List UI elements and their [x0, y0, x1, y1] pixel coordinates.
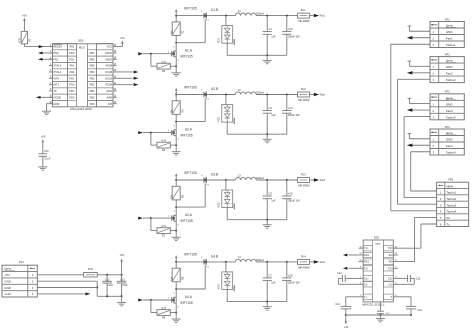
svg-text:4.7k: 4.7k: [161, 307, 166, 310]
svg-text:VD3: VD3: [218, 202, 221, 207]
svg-text:+C2: +C2: [288, 27, 293, 31]
DD2 left pin cells: [359, 246, 373, 300]
capacitor C1 1uF: [263, 16, 277, 56]
svg-text:330uH: 330uH: [256, 176, 264, 180]
transistor pin numbers channel 2: [168, 90, 210, 141]
resistor R3 4.7k gate pulldown channel 1: [151, 54, 177, 73]
fuse FU5: [84, 267, 98, 277]
wire fuse to output arrow channel 3: [310, 179, 314, 181]
svg-text:1uF: 1uF: [271, 113, 276, 117]
svg-text:DD2: DD2: [374, 235, 380, 239]
svg-text:330uH: 330uH: [256, 12, 264, 16]
capacitor C10 at DD2 C1: [337, 272, 358, 284]
wire Tx XP5 to DD2: [398, 224, 437, 248]
svg-text:330uH: 330uH: [256, 91, 264, 95]
capacitor C17 at DD2 GND: [377, 302, 390, 319]
svg-text:MF-R090: MF-R090: [298, 19, 310, 23]
svg-text:+5V: +5V: [344, 326, 349, 329]
wire MCU GND pin to ground: [47, 104, 49, 112]
connector XP3 body: [430, 90, 464, 120]
svg-text:C13: C13: [120, 278, 125, 281]
ground at U4.A source: [172, 319, 181, 322]
svg-text:INT1: INT1: [53, 83, 59, 87]
net arrow Fan3 output: [314, 178, 326, 182]
svg-text:Fan2: Fan2: [320, 95, 326, 97]
transistor pin numbers channel 4: [168, 257, 210, 308]
net arrow Fan3 at XP3 pin2: [407, 108, 430, 111]
wire XS1 GND pin3: [37, 287, 97, 289]
svg-text:FU2: FU2: [301, 87, 306, 91]
wire Rx XP5 to DD2: [398, 217, 437, 261]
wire XP2 pin1 with rail tap: [408, 61, 430, 66]
ground under C11: [38, 167, 47, 170]
svg-text:Цепь: Цепь: [446, 96, 454, 100]
svg-text:GND: GND: [4, 286, 11, 290]
svg-text:MCU: MCU: [79, 46, 85, 50]
wire VD3 to ground rail: [226, 208, 228, 220]
svg-text:+C8: +C8: [288, 273, 293, 277]
svg-text:Цепь: Цепь: [446, 59, 454, 63]
svg-text:DD1: DD1: [78, 39, 84, 43]
net arrow Fan1 output: [314, 14, 326, 18]
connector XP5 body: [437, 178, 469, 227]
power +5V at MCU VCC: [120, 36, 125, 43]
svg-text:AIN1: AIN1: [106, 89, 112, 93]
power +5V tap for R1: [22, 13, 27, 31]
net arrow PWM gate channel 1: [138, 52, 171, 55]
ground at U3.A source: [172, 237, 181, 240]
net arrow TxD at DD2 T2I: [343, 267, 359, 270]
svg-text:Fan1: Fan1: [320, 16, 326, 18]
wire MCU pin14 OC0A PWM out: [117, 83, 139, 86]
svg-text:Цепь: Цепь: [446, 131, 454, 135]
wire resistor to U2.A drain: [175, 114, 177, 129]
svg-text:VD2: VD2: [218, 116, 221, 121]
svg-text:Цепь: Цепь: [446, 24, 454, 28]
wire U2.B drain to output node: [208, 94, 235, 96]
svg-text:T1I: T1I: [364, 247, 368, 250]
net arrow RxD at DD2 R1O: [343, 254, 359, 257]
RS232 driver DD2 body: [362, 235, 393, 306]
ground symbol channel 2: [263, 134, 272, 143]
wire XP4 pin1 with rail tap: [408, 134, 430, 139]
wire MCU pin9 OC0B with net arrow: [36, 96, 53, 99]
svg-text:+5V: +5V: [120, 36, 125, 40]
wire VCC pin to +5V: [117, 44, 123, 47]
net arrow PWM gate channel 3: [138, 217, 171, 220]
n-mosfet U2.A IRF7105: [172, 128, 193, 138]
wire inductor to caps channel 4: [256, 261, 297, 263]
ground at U1.A source: [172, 73, 181, 76]
wire XP1 pin1 with rail tap: [408, 26, 430, 31]
svg-text:GND: GND: [4, 279, 11, 283]
svg-text:IRF7105: IRF7105: [184, 171, 197, 175]
capacitor C16 at DD2 V-: [398, 297, 423, 316]
svg-text:MISO: MISO: [105, 57, 112, 61]
wire Tacho2 XP2 pin3 to XP5: [398, 79, 437, 204]
MCU port column A cells: [67, 43, 76, 100]
svg-text:+5V: +5V: [41, 135, 46, 139]
svg-text:C12: C12: [105, 278, 110, 281]
net arrow Fan4 at XP4 pin2: [407, 144, 430, 147]
svg-text:100uF 16V: 100uF 16V: [288, 35, 300, 38]
wire VD1 to ground rail: [226, 43, 228, 55]
inductor L1 330uH: [235, 9, 263, 16]
inductor L2 330uH: [235, 88, 263, 95]
svg-text:MF-R090: MF-R090: [298, 98, 310, 102]
svg-text:VCC: VCC: [107, 45, 113, 49]
ground symbol channel 1: [263, 55, 272, 64]
svg-text:IRF7105: IRF7105: [180, 301, 192, 305]
svg-text:MAX: MAX: [376, 243, 381, 246]
svg-text:U3.B: U3.B: [211, 173, 218, 177]
svg-text:C3: C3: [269, 106, 273, 110]
svg-text:T2I: T2I: [364, 267, 368, 270]
n-mosfet U4.A IRF7105: [172, 295, 193, 305]
svg-text:FU4: FU4: [301, 255, 306, 259]
svg-text:PB1: PB1: [90, 89, 95, 93]
wire U4.A source to ground: [175, 303, 177, 319]
wire FU5 to +5V node: [97, 274, 122, 276]
svg-text:IRF7105: IRF7105: [180, 55, 192, 59]
wire U4.B drain to output node: [208, 261, 235, 263]
svg-text:GND: GND: [446, 138, 454, 142]
svg-text:U1.A: U1.A: [185, 49, 193, 53]
net arrow PWM gate channel 4: [138, 299, 171, 302]
svg-text:Tacho4: Tacho4: [446, 210, 456, 214]
svg-text:FU3: FU3: [301, 173, 306, 177]
svg-text:XP4: XP4: [445, 125, 450, 129]
wire U1.A source to ground: [175, 57, 177, 73]
svg-text:+C6: +C6: [288, 192, 293, 196]
wire fuse to output arrow channel 1: [310, 15, 314, 17]
svg-text:Tx: Tx: [446, 222, 450, 226]
ground rail channel 1: [227, 54, 287, 56]
DD2 right pin cells: [384, 246, 398, 300]
net arrow PWM gate channel 2: [138, 131, 171, 134]
inductor L3 330uH: [235, 173, 263, 180]
svg-text:U3.A: U3.A: [185, 213, 193, 217]
svg-text:PA0: PA0: [70, 70, 75, 74]
svg-text:Rx: Rx: [446, 216, 450, 220]
schottky diode pair VD2: [218, 95, 235, 125]
svg-text:MF-R090: MF-R090: [298, 265, 310, 269]
resistor R9 4.7k gate pulldown channel 4: [151, 300, 177, 320]
wire VD2 to ground rail: [226, 122, 228, 134]
svg-text:T+: T+: [364, 296, 368, 299]
svg-text:PB3: PB3: [90, 76, 95, 80]
ground rail under input caps: [97, 295, 122, 297]
capacitor C7 1uF: [263, 262, 277, 302]
ground rail channel 4: [227, 301, 287, 303]
p-mosfet U3.B IRF7105: [184, 171, 218, 185]
capacitor C15 at DD2 C2: [398, 275, 421, 285]
transistor pin numbers channel 3: [168, 175, 210, 226]
ground symbol power input: [117, 296, 126, 306]
svg-text:PA2: PA2: [70, 45, 75, 49]
MCU right pin cells: [97, 43, 113, 106]
resistor R8 10k gate pullup channel 4: [171, 262, 185, 282]
connector XP4 body: [430, 125, 464, 155]
wire U1.B gate down to U1.A drain: [175, 21, 205, 44]
svg-text:PD2: PD2: [69, 76, 75, 80]
svg-text:C14: C14: [336, 303, 341, 306]
wire inductor to caps channel 1: [256, 15, 297, 17]
svg-text:Fan4: Fan4: [446, 144, 453, 148]
net arrow Fan2 output: [314, 93, 326, 97]
svg-text:C2+: C2+: [388, 277, 393, 280]
wire XS1 +12V pin4 with net arrow: [37, 292, 90, 295]
svg-text:MF-R090: MF-R090: [298, 183, 310, 187]
fuse FU2 MF-R090: [298, 87, 310, 102]
resistor R4 10k gate pullup channel 2: [171, 95, 185, 115]
svg-text:Цепь: Цепь: [4, 267, 11, 271]
transistor pin numbers channel 1: [168, 11, 210, 62]
rail between C14 and C16: [346, 314, 411, 316]
svg-text:4.7k: 4.7k: [161, 140, 166, 143]
power +12V tap channel 4: [175, 255, 177, 263]
wire +12V rail channel 1: [176, 15, 202, 17]
svg-text:4.7k: 4.7k: [161, 61, 166, 64]
svg-text:XS1: XS1: [19, 260, 25, 264]
wire U3.A source to ground: [175, 221, 177, 237]
svg-text:Tacho2: Tacho2: [446, 78, 456, 82]
MCU internal column dividers: [67, 44, 96, 107]
MCU left pin stubs and numbers: [49, 45, 53, 104]
capacitor C11 0.1uF: [39, 150, 51, 167]
power +5V arrow main supply: [119, 253, 124, 275]
svg-text:U2.B: U2.B: [211, 87, 218, 91]
fuse FU4 MF-R090: [298, 255, 310, 270]
svg-text:Fan1: Fan1: [446, 37, 453, 41]
svg-text:XTAL1: XTAL1: [53, 70, 61, 74]
svg-text:XP3: XP3: [445, 90, 450, 94]
svg-text:Tacho3: Tacho3: [446, 115, 456, 119]
svg-text:PA1: PA1: [70, 64, 75, 68]
svg-text:Fan4: Fan4: [320, 262, 326, 264]
inductor L4 330uH: [235, 255, 263, 262]
svg-text:C1+: C1+: [364, 277, 369, 280]
svg-text:IRF7105: IRF7105: [184, 6, 197, 10]
p-mosfet U4.B IRF7105: [184, 253, 218, 267]
wire U4.B gate down to U4.A drain: [175, 267, 205, 290]
ground under DD2: [376, 318, 385, 321]
svg-text:FU1: FU1: [301, 8, 306, 12]
MCU right pin stubs and numbers: [113, 45, 117, 104]
ground at U2.A source: [172, 152, 181, 155]
svg-text:ATtiny2313-20SU: ATtiny2313-20SU: [70, 107, 93, 111]
svg-text:OC0A: OC0A: [105, 83, 112, 87]
wire VD4 to ground rail: [226, 290, 228, 302]
svg-text:C5: C5: [269, 192, 273, 196]
svg-text:C15: C15: [416, 277, 421, 280]
svg-text:+5V: +5V: [119, 253, 124, 257]
resistor R2 10k gate pullup channel 1: [171, 16, 185, 36]
svg-text:U1.B: U1.B: [211, 8, 218, 12]
svg-text:C10: C10: [337, 272, 342, 275]
svg-text:MOSI: MOSI: [105, 64, 112, 68]
svg-text:GND: GND: [53, 102, 59, 106]
svg-text:IRF7105: IRF7105: [180, 219, 192, 223]
power +12V tap channel 3: [175, 173, 177, 181]
svg-text:XTAL2: XTAL2: [53, 64, 61, 68]
svg-text:ICP: ICP: [108, 102, 113, 106]
svg-text:Tacho1: Tacho1: [446, 43, 456, 47]
svg-text:C11: C11: [44, 150, 49, 153]
net arrow Fan2 at XP2 pin2: [407, 71, 430, 74]
svg-text:INT0: INT0: [53, 76, 59, 80]
svg-text:PB5: PB5: [90, 64, 95, 68]
capacitor C2 100uF 16V: [282, 16, 300, 56]
svg-text:100uF 16V: 100uF 16V: [288, 200, 300, 203]
svg-text:0.1uF: 0.1uF: [107, 284, 114, 287]
wire XS1 GND pin2: [37, 281, 98, 296]
svg-text:XP2: XP2: [445, 52, 450, 56]
svg-text:100uF 16V: 100uF 16V: [288, 114, 300, 117]
net arrow Fan1 at XP1 pin2: [407, 36, 430, 39]
svg-text:PB6: PB6: [90, 57, 95, 61]
wire Tacho4 XP4 pin3 to XP5: [411, 152, 437, 191]
svg-text:Tacho2: Tacho2: [446, 197, 456, 201]
wire XS1 +5V to fuse FU5: [37, 274, 83, 276]
connector XP2 body: [430, 52, 464, 82]
svg-text:R1O: R1O: [364, 254, 369, 257]
wire MCU pin16 OC1B PWM out: [117, 70, 139, 73]
svg-text:0.1uF: 0.1uF: [44, 157, 51, 160]
svg-text:PD6: PD6: [90, 102, 96, 106]
fuse FU3 MF-R090: [298, 173, 310, 188]
svg-text:47uF: 47uF: [122, 284, 128, 287]
svg-text:U2.A: U2.A: [185, 128, 193, 132]
resistor R1 4.7k: [19, 31, 32, 44]
svg-text:GND: GND: [446, 65, 454, 69]
n-mosfet U1.A IRF7105: [172, 49, 193, 59]
svg-text:VD1: VD1: [218, 38, 221, 43]
svg-text:Fan3: Fan3: [320, 180, 326, 182]
wire U2.A source to ground: [175, 136, 177, 152]
p-mosfet U2.B IRF7105: [184, 85, 218, 99]
svg-text:T0: T0: [53, 89, 57, 93]
svg-text:+5V: +5V: [22, 13, 27, 17]
svg-text:100uF 16V: 100uF 16V: [288, 282, 300, 285]
net arrow DTR on RESET wire: [39, 45, 44, 48]
wire resistor to U3.A drain: [175, 200, 177, 215]
svg-text:OC1A: OC1A: [105, 76, 112, 80]
wire MCU pin3 TXD with net arrow: [38, 58, 53, 61]
power +5V arrow below C14: [344, 315, 349, 329]
svg-text:IRF7105: IRF7105: [184, 85, 197, 89]
svg-text:1uF: 1uF: [271, 281, 276, 285]
svg-text:IRF7105: IRF7105: [180, 133, 192, 137]
svg-text:R2O: R2O: [364, 261, 369, 264]
capacitor C6 100uF 16V: [282, 180, 300, 220]
ground under MCU: [42, 111, 51, 114]
ground rail channel 3: [227, 219, 287, 221]
svg-text:T2O: T2O: [388, 267, 393, 270]
svg-text:C2-: C2-: [389, 283, 393, 286]
MCU port column B cells: [88, 50, 97, 107]
wire U3.B gate down to U3.A drain: [175, 185, 205, 208]
svg-text:C1: C1: [269, 27, 273, 31]
svg-text:OC0B: OC0B: [53, 95, 60, 99]
svg-text:PD0: PD0: [69, 51, 75, 55]
power +5V tap for C11: [41, 135, 46, 154]
wire U3.B drain to output node: [208, 179, 235, 181]
svg-text:+5V: +5V: [4, 273, 9, 277]
svg-text:GND: GND: [446, 102, 454, 106]
capacitor C14 at DD2 V+: [336, 297, 359, 316]
svg-text:330uH: 330uH: [256, 258, 264, 262]
capacitor C4 100uF 16V: [282, 95, 300, 135]
capacitor C12 0.1uF: [102, 275, 113, 297]
svg-text:Fan2: Fan2: [446, 72, 453, 76]
svg-text:R2I: R2I: [389, 261, 393, 264]
svg-text:PB2: PB2: [90, 83, 95, 87]
svg-text:AIN0: AIN0: [106, 95, 112, 99]
resistor R6 10k gate pullup channel 3: [171, 180, 185, 200]
svg-text:PD0: PD0: [53, 51, 59, 55]
svg-text:PD1: PD1: [53, 57, 59, 61]
svg-text:PD1: PD1: [69, 57, 75, 61]
wire U1.B drain to output node: [208, 15, 235, 17]
capacitor C8 100uF 16V: [282, 262, 300, 302]
wire MCU pin15 OC1A PWM out: [117, 77, 139, 80]
svg-text:T1O: T1O: [388, 247, 393, 250]
capacitor C3 1uF: [263, 95, 277, 135]
svg-text:USCK: USCK: [105, 51, 113, 55]
svg-text:Цепь: Цепь: [446, 184, 453, 188]
MCU left pin cells: [53, 43, 68, 106]
resistor R5 4.7k gate pulldown channel 2: [151, 133, 177, 153]
p-mosfet U1.B IRF7105: [184, 6, 218, 20]
svg-text:MAX232_SO16_L: MAX232_SO16_L: [362, 302, 385, 306]
capacitor C5 1uF: [263, 180, 277, 220]
svg-text:PB4: PB4: [90, 70, 95, 74]
resistor R7 4.7k gate pulldown channel 3: [151, 218, 177, 238]
svg-text:FU5: FU5: [88, 267, 93, 271]
svg-text:Tacho1: Tacho1: [446, 191, 456, 195]
svg-text:PD5: PD5: [69, 95, 75, 99]
ground symbol channel 4: [263, 302, 272, 311]
svg-text:IRF7105: IRF7105: [184, 253, 197, 257]
ground symbol channel 3: [263, 220, 272, 229]
svg-text:+C4: +C4: [288, 106, 293, 110]
svg-text:PD3: PD3: [69, 83, 75, 87]
wire inductor to caps channel 3: [256, 179, 297, 181]
svg-text:XP1: XP1: [445, 17, 450, 21]
connector XP1 body: [430, 17, 464, 47]
wire R1 to RESET pin: [24, 44, 52, 47]
net arrow Fan4 output: [314, 260, 326, 264]
svg-text:XP5: XP5: [448, 178, 453, 182]
svg-text:+12V: +12V: [4, 292, 11, 296]
svg-text:PD4: PD4: [69, 89, 75, 93]
connector XS1 body: [2, 260, 37, 297]
power +12V tap channel 2: [175, 88, 177, 96]
svg-text:4.7k: 4.7k: [161, 225, 166, 228]
wire +12V rail channel 2: [176, 94, 202, 96]
wire XP3 pin1 with rail tap: [408, 98, 430, 103]
wire U2.B gate down to U2.A drain: [175, 100, 205, 123]
svg-text:U4.B: U4.B: [211, 255, 218, 259]
wire inductor to caps channel 2: [256, 94, 297, 96]
svg-text:R1I: R1I: [389, 254, 393, 257]
n-mosfet U3.A IRF7105: [172, 213, 193, 223]
svg-text:1uF: 1uF: [271, 199, 276, 203]
svg-text:VD4: VD4: [218, 284, 221, 289]
schottky diode pair VD1: [218, 16, 235, 45]
ground rail channel 2: [227, 133, 287, 135]
